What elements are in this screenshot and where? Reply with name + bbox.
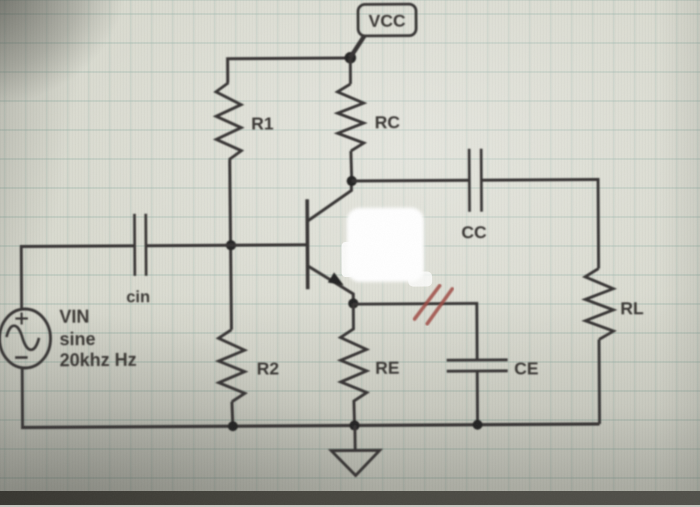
source VIN minus xyxy=(15,356,27,359)
node VCC junction dot xyxy=(344,52,356,64)
capacitor CC xyxy=(469,149,481,212)
source VIN circle xyxy=(0,309,51,368)
wire R1 bottom to base node to R2 top xyxy=(230,160,232,330)
transistor Q1 collector lead xyxy=(307,181,352,221)
label VIN sine 20khz Hz xyxy=(59,306,136,370)
source VIN plus xyxy=(15,312,28,324)
resistor RE xyxy=(340,303,367,425)
transistor Q1 base bar xyxy=(305,199,309,289)
wire top rail from R1 to VCC node xyxy=(228,58,351,83)
resistor R2 xyxy=(218,330,244,402)
whiteout blob over Q1 label xyxy=(341,207,432,287)
node collector junction dot xyxy=(347,176,357,186)
capacitor CE xyxy=(447,360,508,371)
transistor Q1 emitter arrow xyxy=(328,272,344,285)
node emitter junction dot xyxy=(348,298,358,308)
resistor R1 xyxy=(216,83,241,160)
wire bottom rail xyxy=(21,424,599,428)
wire RL bottom to bottom rail xyxy=(598,339,601,423)
node base junction dot xyxy=(226,240,236,250)
wire CE bottom xyxy=(476,371,479,425)
source VIN sine wave xyxy=(6,326,39,350)
transistor Q1 emitter lead xyxy=(308,265,354,303)
wire cin to base xyxy=(146,243,307,247)
capacitor cin xyxy=(134,214,146,276)
wire CC to right rail corner xyxy=(482,179,599,269)
wire collector to CC xyxy=(352,179,469,183)
wire RC top xyxy=(349,58,352,84)
annotation red double slash xyxy=(414,286,452,324)
wire emitter to CE xyxy=(353,303,477,359)
wire RC bottom to collector node xyxy=(349,151,353,181)
resistor RC xyxy=(337,84,363,151)
ground xyxy=(331,425,380,475)
wire VCC flag leader xyxy=(350,35,365,57)
wire VIN bottom to bottom rail xyxy=(21,368,24,427)
node ground junction dot xyxy=(349,420,359,430)
power flag VCC box xyxy=(358,4,416,36)
resistor RL xyxy=(585,268,613,339)
wire R2 bottom xyxy=(230,402,234,427)
node CE-ground junction dot xyxy=(473,420,483,430)
node R2-ground junction dot xyxy=(228,421,238,431)
wire input left segment VIN top to cin xyxy=(21,246,134,310)
